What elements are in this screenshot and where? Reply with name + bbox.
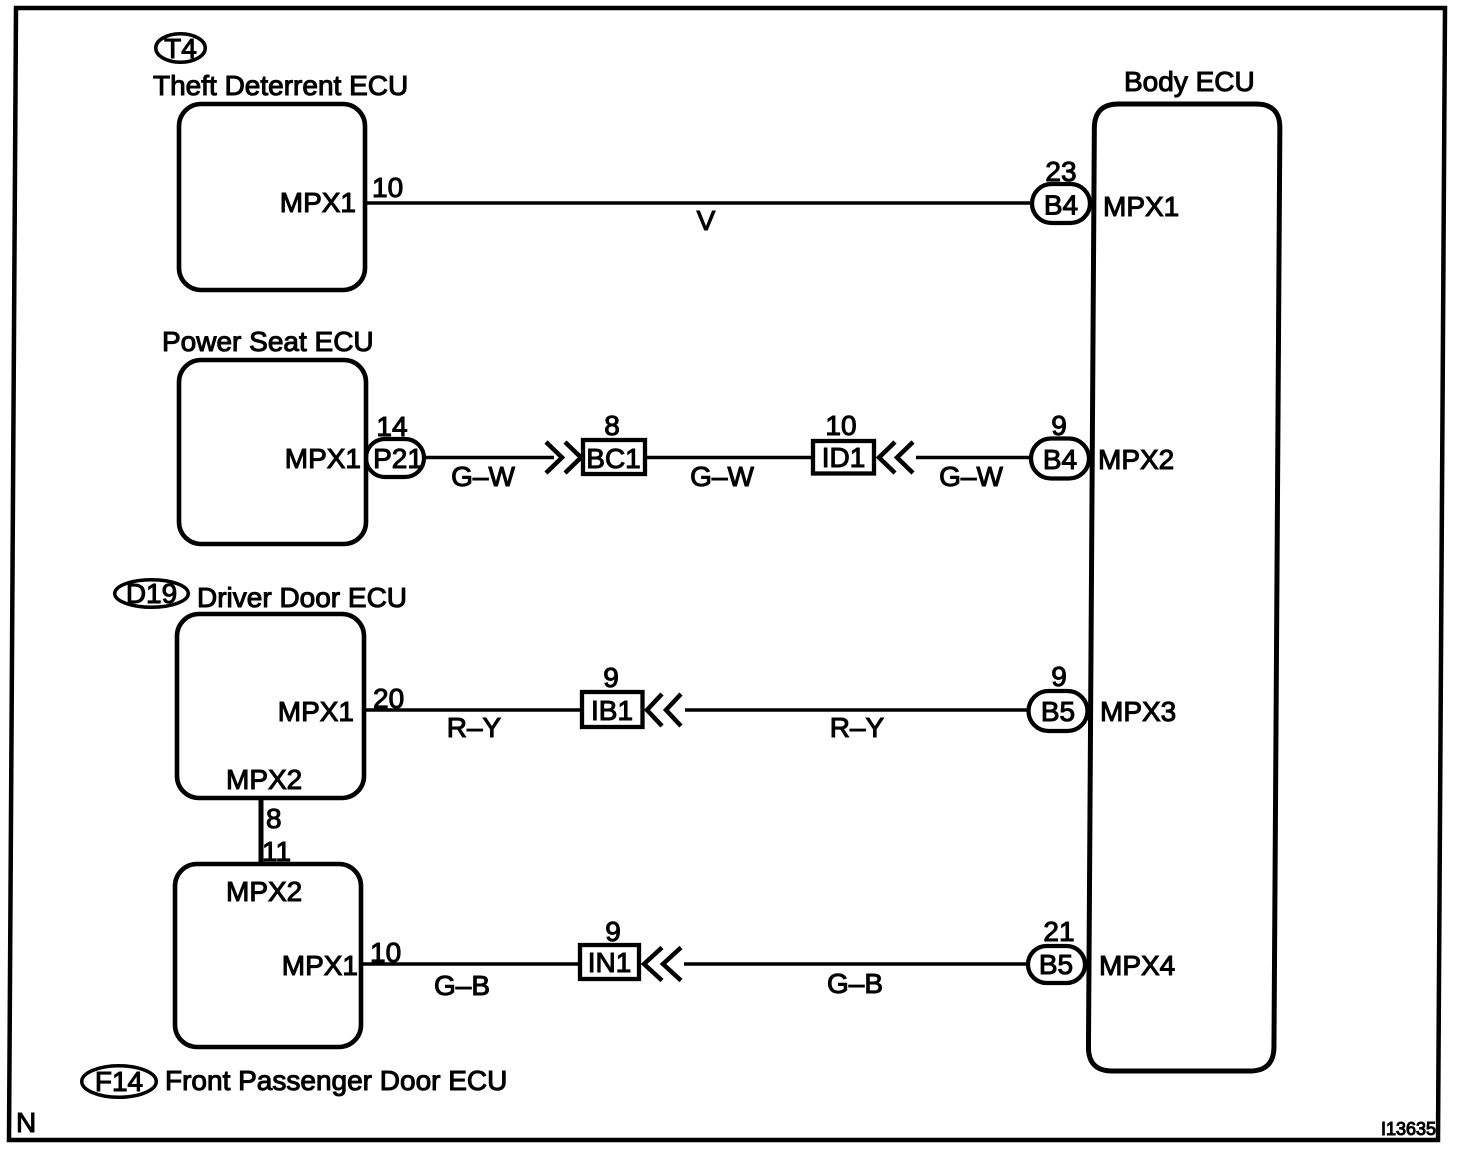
svg-text:IN1: IN1: [588, 947, 632, 978]
svg-text:9: 9: [1051, 410, 1067, 441]
svg-text:10: 10: [372, 172, 403, 203]
svg-text:G–B: G–B: [827, 968, 883, 999]
svg-text:MPX1: MPX1: [1103, 191, 1179, 222]
svg-text:G–W: G–W: [939, 461, 1003, 492]
svg-text:MPX2: MPX2: [1098, 444, 1174, 475]
svg-text:14: 14: [376, 411, 407, 442]
svg-text:IB1: IB1: [591, 695, 633, 726]
svg-text:23: 23: [1045, 156, 1076, 187]
svg-text:F14: F14: [95, 1066, 143, 1097]
svg-text:10: 10: [825, 410, 856, 441]
svg-text:B4: B4: [1043, 444, 1077, 475]
svg-text:MPX2: MPX2: [226, 876, 302, 907]
svg-text:B5: B5: [1039, 949, 1073, 980]
svg-text:B4: B4: [1044, 190, 1078, 221]
svg-text:Theft Deterrent ECU: Theft Deterrent ECU: [153, 70, 408, 101]
svg-text:P21: P21: [373, 443, 423, 474]
svg-text:9: 9: [1051, 661, 1067, 692]
svg-text:20: 20: [373, 683, 404, 714]
svg-text:BC1: BC1: [586, 443, 640, 474]
svg-text:MPX4: MPX4: [1099, 950, 1175, 981]
svg-text:D19: D19: [126, 578, 177, 609]
svg-text:MPX1: MPX1: [278, 696, 354, 727]
svg-text:ID1: ID1: [822, 442, 866, 473]
svg-text:G–W: G–W: [451, 461, 515, 492]
svg-text:8: 8: [266, 803, 282, 834]
svg-text:Front Passenger Door ECU: Front Passenger Door ECU: [165, 1065, 507, 1096]
svg-text:B5: B5: [1041, 696, 1075, 727]
svg-text:8: 8: [604, 410, 620, 441]
svg-text:G–W: G–W: [690, 461, 754, 492]
svg-text:R–Y: R–Y: [830, 712, 885, 743]
svg-text:Driver Door ECU: Driver Door ECU: [197, 582, 407, 613]
svg-text:V: V: [697, 205, 716, 236]
svg-text:9: 9: [605, 916, 621, 947]
svg-text:9: 9: [603, 662, 619, 693]
svg-text:N: N: [16, 1107, 36, 1138]
svg-text:10: 10: [370, 937, 401, 968]
svg-text:Body ECU: Body ECU: [1124, 66, 1255, 97]
svg-text:MPX1: MPX1: [282, 950, 358, 981]
svg-text:11: 11: [262, 836, 291, 867]
svg-text:21: 21: [1043, 916, 1074, 947]
svg-text:T4: T4: [164, 33, 197, 64]
svg-text:Power Seat ECU: Power Seat ECU: [162, 326, 374, 357]
svg-text:MPX2: MPX2: [226, 764, 302, 795]
svg-text:MPX1: MPX1: [285, 443, 361, 474]
svg-text:MPX1: MPX1: [280, 187, 356, 218]
svg-text:I13635: I13635: [1381, 1119, 1436, 1139]
svg-text:R–Y: R–Y: [447, 712, 502, 743]
svg-text:MPX3: MPX3: [1100, 696, 1176, 727]
svg-text:G–B: G–B: [434, 970, 490, 1001]
